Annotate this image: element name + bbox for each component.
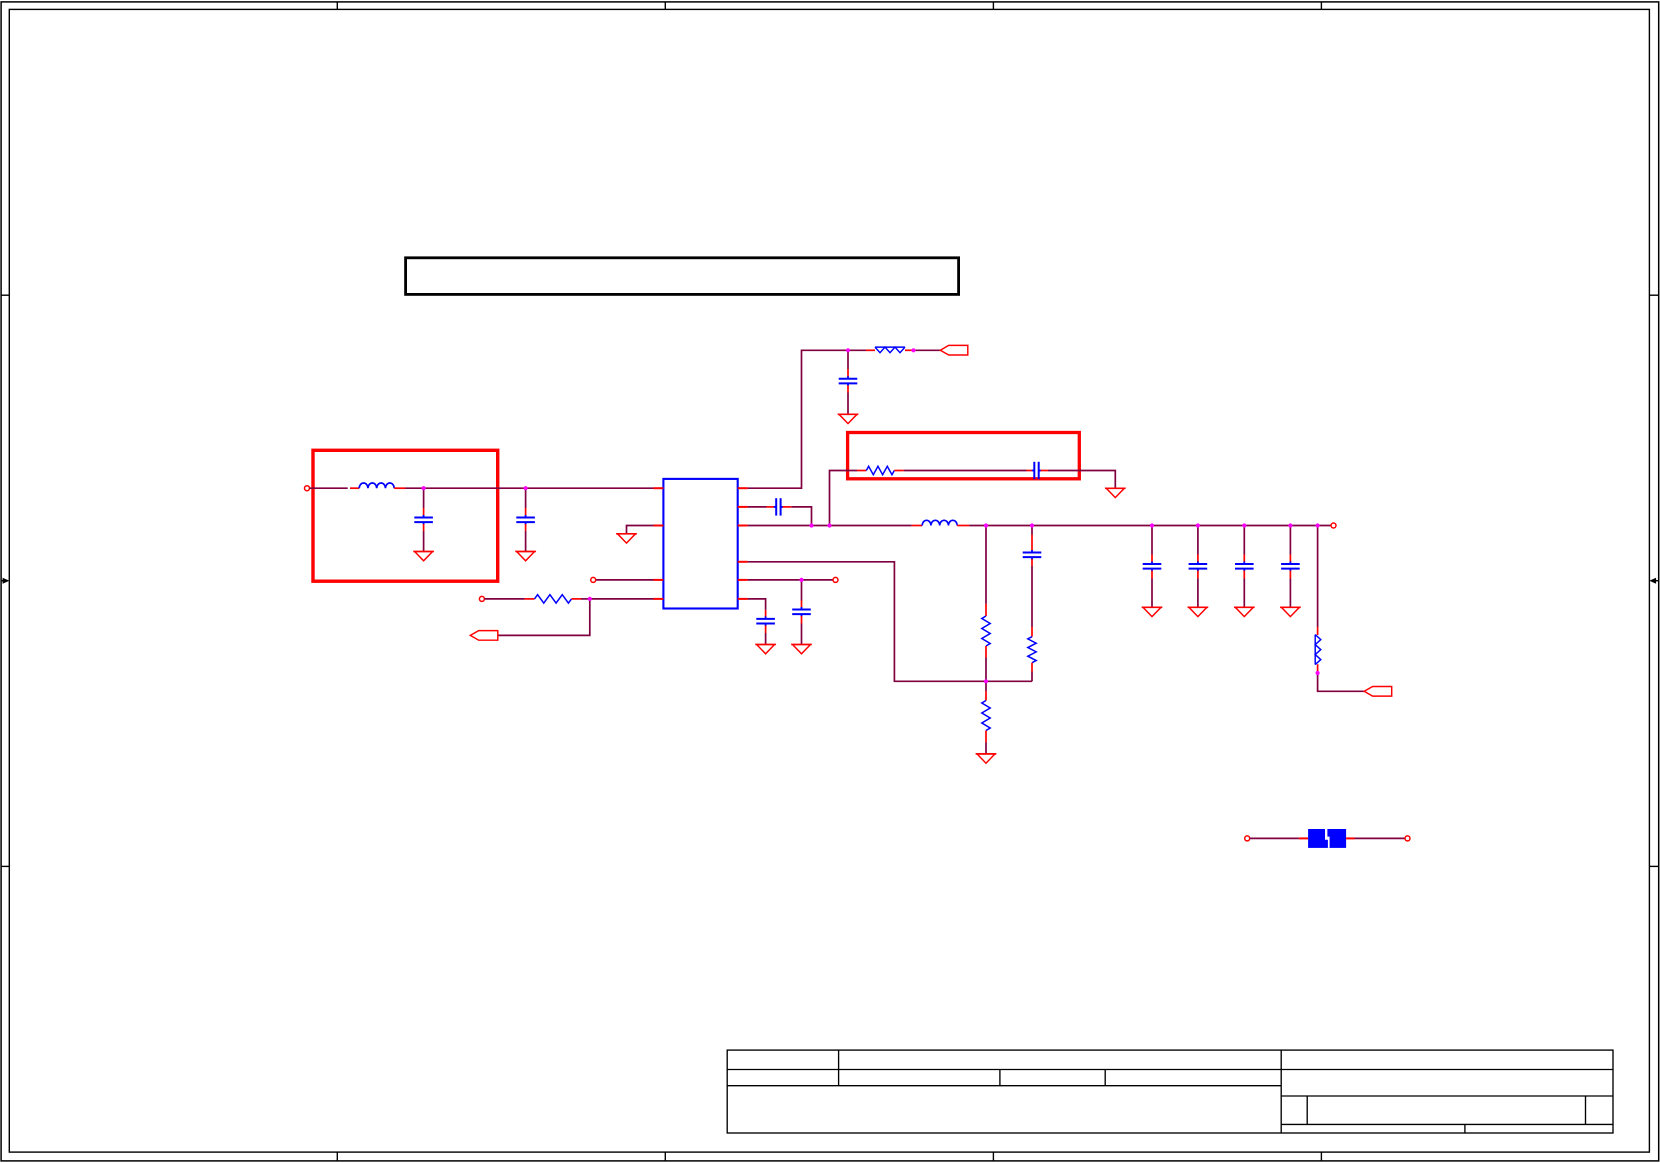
pin U1.5 (VSENSE) <box>738 561 748 563</box>
capacitor C8 <box>1189 555 1208 579</box>
junction RT node <box>588 597 592 601</box>
wire EN <box>596 579 654 581</box>
wire C6 to R5 <box>1031 566 1033 627</box>
ground (U1) <box>616 534 637 543</box>
capacitor C3 <box>839 369 858 393</box>
pin U1.6 (SW) <box>738 525 748 527</box>
wire F1 to J7 <box>1355 837 1405 839</box>
capacitor C12 <box>792 601 811 624</box>
op-amp U1 body <box>663 479 737 609</box>
wire VOUT to R3 <box>985 526 987 604</box>
wire to C3 <box>847 350 849 369</box>
ground (C7) <box>1142 607 1163 616</box>
junction R1 out <box>911 348 915 352</box>
wire to C2 <box>525 488 527 508</box>
ground (C13) <box>755 645 776 654</box>
wire to C1 <box>423 488 425 508</box>
capacitor C9 <box>1235 555 1254 579</box>
junction VOUT/R3 <box>984 523 988 527</box>
wire L1 to U1 VIN <box>405 487 653 489</box>
wire C4 to SW net <box>791 507 811 526</box>
pin U1.2 (GND) <box>654 525 664 527</box>
pin U1.9 (SS) <box>738 579 748 581</box>
wire SW net <box>748 525 912 527</box>
ground (C12) <box>791 645 812 654</box>
wire R6 to P2 <box>1318 673 1365 691</box>
title block <box>727 1050 1613 1133</box>
wire C8 to ground <box>1197 579 1199 608</box>
wire node to U1 RT <box>590 598 654 600</box>
wire PH to C4 <box>748 506 767 508</box>
pin U1.10 (COMP) <box>738 598 748 600</box>
wire fb node down <box>985 681 987 691</box>
resistor R4 (fb bottom) <box>982 691 990 743</box>
wire R5 to fb node <box>1031 672 1033 682</box>
wire to C10 <box>1289 535 1291 555</box>
wire VOUT to C8 <box>1197 526 1199 536</box>
terminal J1 (VIN input) <box>305 486 310 491</box>
capacitor C7 <box>1143 555 1162 579</box>
wire C13 to ground <box>765 633 767 645</box>
pin U1.4 (RT) <box>654 598 664 600</box>
port P3 (RT_SEL) <box>470 631 498 641</box>
terminal J6 (fuse in) <box>1245 836 1250 841</box>
highlight box 2 (snubber) <box>848 433 1080 479</box>
wire COMP net <box>748 599 766 610</box>
junction VOUT/C6 <box>1030 523 1034 527</box>
pin R1 left <box>866 349 875 351</box>
capacitor C1 <box>414 508 433 531</box>
ground (C1) <box>413 552 434 561</box>
junction SS/C12 <box>799 578 803 582</box>
junction VOUT/C9 <box>1242 523 1246 527</box>
ground (C9) <box>1234 607 1255 616</box>
ground (snubber) <box>1105 488 1126 497</box>
junction VOUT/R6 <box>1316 523 1320 527</box>
resistor R3 (fb top) <box>982 604 990 658</box>
junction VOUT/C10 <box>1288 523 1292 527</box>
wire R1 to P1 <box>914 349 941 351</box>
wire to C9 <box>1243 535 1245 555</box>
wire R2 to C5 <box>904 470 1027 472</box>
wire VOUT to C9 <box>1243 526 1245 536</box>
resistor R6 <box>1315 627 1321 672</box>
capacitor C10 <box>1281 555 1300 579</box>
wire J4 to R7 <box>485 598 525 600</box>
wire VOUT to C6 <box>1031 526 1033 535</box>
pin R1 right <box>905 349 914 351</box>
pin U1.8 (BOOT) <box>738 487 748 489</box>
wire U1 GND pin <box>627 526 654 534</box>
capacitor C2 <box>516 508 535 531</box>
port P2 (VOUT_SENSE) <box>1364 687 1392 697</box>
ground (C3) <box>838 414 859 423</box>
fuse F1 <box>1299 829 1355 848</box>
wire C12 to ground <box>801 624 803 645</box>
wire R7 to node <box>581 598 590 600</box>
wire VOUT net <box>969 525 1331 527</box>
wire VOUT to C10 <box>1289 526 1291 536</box>
terminal J7 (fuse out) <box>1405 836 1410 841</box>
ground (C8) <box>1188 607 1209 616</box>
wire C5 to ground <box>1048 471 1115 489</box>
junction VOUT/C7 <box>1150 523 1154 527</box>
wire node to P3 <box>498 599 590 636</box>
capacitor C6 <box>1023 535 1042 567</box>
capacitor C13 <box>756 610 775 633</box>
wire SS net <box>748 579 833 581</box>
junction SW/snubber <box>827 523 831 527</box>
terminal J5 (SS) <box>833 577 838 582</box>
junction VIN/C2 <box>524 486 528 490</box>
terminal J4 (RT) <box>479 596 484 601</box>
ground (C2) <box>515 552 536 561</box>
pin U1.3 (EN) <box>654 579 664 581</box>
wire C3 to ground <box>847 393 849 415</box>
wire C1 to ground <box>423 531 425 552</box>
ground (C10) <box>1280 607 1301 616</box>
junction R6 out <box>1316 671 1320 675</box>
frame center arrow right <box>1649 578 1658 584</box>
wire VOUT to C7 <box>1151 526 1153 536</box>
capacitor C4 <box>767 498 792 515</box>
annotation rectangle <box>406 258 959 295</box>
pin U1.7 (PH) <box>738 506 748 508</box>
frame center arrow left <box>1 578 9 584</box>
terminal J2 (VOUT) <box>1331 523 1336 528</box>
pin U1.1 (VIN) <box>654 487 664 489</box>
wire C7 to ground <box>1151 579 1153 608</box>
wire C9 to ground <box>1243 579 1245 608</box>
junction VIN/C1 <box>422 486 426 490</box>
junction feedback node <box>984 679 988 683</box>
wire VIN to L1 <box>310 487 348 489</box>
wire SS to C12 <box>801 580 803 601</box>
resistor R7 <box>525 595 581 603</box>
resistor R1 (boot) <box>875 347 905 353</box>
capacitor C5 (snubber) <box>1027 462 1049 479</box>
resistor R2 (snubber) <box>857 466 904 474</box>
terminal J3 (EN) <box>591 577 596 582</box>
junction VOUT/C8 <box>1196 523 1200 527</box>
wire to C8 <box>1197 535 1199 555</box>
wire J6 to F1 <box>1250 837 1299 839</box>
inductor L1 <box>350 483 406 488</box>
junction BOOT/C3 <box>846 348 850 352</box>
wire SW to snubber R2 <box>830 471 858 526</box>
resistor R5 <box>1028 627 1036 672</box>
wire R4 to ground <box>985 743 987 754</box>
ground (R4) <box>976 754 997 763</box>
port P1 (BOOT) <box>940 345 968 355</box>
wire to C7 <box>1151 535 1153 555</box>
inductor L2 <box>912 520 970 525</box>
wire R3 to fb node <box>985 658 987 682</box>
wire BOOT net <box>748 350 866 488</box>
wire C10 to ground <box>1289 579 1291 608</box>
junction SW/C4 <box>809 523 813 527</box>
wire VOUT to R6 <box>1317 526 1319 628</box>
highlight box 1 (input filter) <box>313 450 498 581</box>
wire VSENSE net <box>748 562 1032 682</box>
wire C2 to ground <box>525 531 527 552</box>
